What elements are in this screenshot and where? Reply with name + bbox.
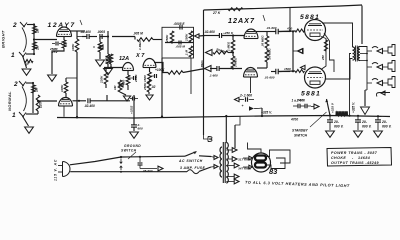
ground volume bright xyxy=(96,60,105,66)
ground mixer bright xyxy=(104,69,113,75)
svg-text:4700: 4700 xyxy=(290,118,298,122)
PI box left edge xyxy=(203,10,205,135)
wire 12AY7A cathode down xyxy=(63,37,65,41)
wire 83 plate loop inner xyxy=(266,158,285,169)
bias tap arrow xyxy=(235,97,245,101)
wire pot to ground xyxy=(99,52,101,59)
PI input arrow lower xyxy=(205,66,212,72)
wire PT HV up A xyxy=(225,115,227,143)
svg-text:GROUND: GROUND xyxy=(124,144,141,148)
wire screen vertical B xyxy=(324,33,334,72)
resistor 68K bright (diagonal) xyxy=(24,60,33,67)
svg-text:1 ±.1-600: 1 ±.1-600 xyxy=(292,99,306,103)
capacitor .02-600 PI in xyxy=(204,30,244,38)
note text line1 xyxy=(331,151,378,155)
wire bias vertical xyxy=(292,30,294,72)
output transformer T1 secondary xyxy=(358,47,360,61)
wire to PI lower arrow xyxy=(183,69,205,73)
resistor mixer 1 bright xyxy=(106,54,112,65)
label +325V node xyxy=(261,111,272,115)
wire signal A xyxy=(77,31,85,37)
label STANDBY SWITCH xyxy=(292,112,327,138)
input jack J3 (normal 2) xyxy=(19,81,26,86)
tone box outline xyxy=(162,27,194,58)
svg-text:100K: 100K xyxy=(60,84,64,92)
wire 5881 upper plate to OT xyxy=(322,23,353,47)
resistor 220K (2nd) xyxy=(100,68,108,89)
resistor PI input upper xyxy=(213,47,228,54)
wire to mixer node xyxy=(107,31,109,54)
svg-text:25MF: 25MF xyxy=(134,74,138,83)
svg-text:1 MEG: 1 MEG xyxy=(138,40,142,50)
PI A plate hatch xyxy=(246,32,256,34)
svg-text:250K: 250K xyxy=(165,34,169,43)
wire bias node xyxy=(258,108,262,116)
svg-text:2: 2 xyxy=(12,22,17,29)
resistor 820 cathode A xyxy=(62,40,67,48)
arrow PI mid xyxy=(298,49,303,54)
resistor 250K PI upper xyxy=(261,35,269,48)
capacitor .005 tone xyxy=(176,41,186,49)
svg-text:250K: 250K xyxy=(143,82,147,91)
svg-text:115 V. AC: 115 V. AC xyxy=(54,159,58,181)
svg-text:.02: .02 xyxy=(151,85,156,89)
resistor grid stopper lower xyxy=(295,70,305,73)
input jack 1 (bright) number xyxy=(11,52,15,59)
wire normal node up xyxy=(106,95,108,101)
channel label BRIGHT xyxy=(1,30,6,48)
wire input bus vertical (normal) xyxy=(32,83,34,113)
wire curve jack2-jack1 xyxy=(22,28,26,53)
input jack J1 (bright 2) xyxy=(20,22,27,27)
tube label 5881 lower xyxy=(301,91,321,98)
svg-text:.05 MEG: .05 MEG xyxy=(268,48,272,60)
svg-text:+250 K: +250 K xyxy=(223,31,234,35)
resistor 250K PI lower xyxy=(265,48,271,62)
wire 12AY7B cathode down xyxy=(63,106,65,117)
wire top to OT secondary xyxy=(361,6,363,45)
svg-text:1500: 1500 xyxy=(143,75,147,82)
arrow bias mid xyxy=(293,49,303,54)
label AC SWITCH xyxy=(178,159,203,163)
wire 12AY7B plate up xyxy=(65,93,67,98)
wire norm chain2 xyxy=(107,100,130,102)
wire PI out lower to 5881 xyxy=(279,67,295,72)
wire signal B xyxy=(73,100,87,102)
ground 12AY7 cathode xyxy=(48,75,57,81)
83 plate lower xyxy=(255,163,266,168)
svg-text:.005 M: .005 M xyxy=(133,32,143,36)
arrow bias out xyxy=(311,104,319,109)
svg-text:SWITCH: SWITCH xyxy=(294,134,308,138)
label voltage vertical xyxy=(130,105,134,114)
label 250K PI grid xyxy=(223,31,234,35)
tube 5881 upper envelope xyxy=(305,20,326,41)
capacitor 2-600 preamp xyxy=(131,118,143,131)
svg-text:5881: 5881 xyxy=(301,91,321,98)
svg-text:+325 V.: +325 V. xyxy=(261,111,272,115)
12AY7B plate hatch xyxy=(61,100,70,102)
ground below normal jack 1 xyxy=(25,127,34,133)
pot normal tone xyxy=(143,80,151,92)
capacitor PI in lower xyxy=(209,66,242,78)
power transformer T2 primary xyxy=(220,147,222,177)
wire tone mid xyxy=(165,41,194,43)
svg-text:+: + xyxy=(242,104,244,108)
wire 12AX7B plate chain xyxy=(154,63,168,73)
svg-text:.05-600: .05-600 xyxy=(142,169,153,173)
tube label 83 xyxy=(269,167,278,176)
speaker jack 3 xyxy=(367,77,395,88)
svg-text:600 V.: 600 V. xyxy=(382,124,392,128)
wire PI divider tail xyxy=(257,48,267,68)
tube 12AX7 triode B envelope xyxy=(143,59,156,68)
wire PI grid upper xyxy=(228,52,233,54)
svg-text:BRIGHT: BRIGHT xyxy=(1,30,6,48)
tube 5881 lower envelope xyxy=(305,67,326,88)
choke L1 xyxy=(336,111,349,116)
svg-text:220K: 220K xyxy=(100,75,104,84)
PI input arrow upper xyxy=(206,50,213,56)
resistor 1MEG PI xyxy=(227,34,235,53)
AC plug P1 xyxy=(58,162,70,177)
wire plate B to rail stub xyxy=(66,78,77,82)
5881 lower plate xyxy=(308,72,322,74)
capacitor .01-600 PI out upper xyxy=(266,26,290,34)
wire tone normal down xyxy=(148,92,150,94)
wire bright chain xyxy=(112,36,135,38)
PI B plate hatch xyxy=(246,70,256,72)
wire PI out upper to 5881 xyxy=(279,27,295,32)
capacitor ground switch xyxy=(138,157,153,173)
wire OT center tap down xyxy=(350,54,352,117)
svg-text:1: 1 xyxy=(11,52,15,59)
wire grid 2nd stage xyxy=(104,67,123,69)
svg-text:+325 V: +325 V xyxy=(331,102,335,113)
capacitor .01-600 PI out lower xyxy=(264,69,290,80)
wire jack1 down xyxy=(23,57,27,68)
svg-text:OUTPUT TRANS -45249: OUTPUT TRANS -45249 xyxy=(331,161,379,165)
output transformer core xyxy=(356,46,358,62)
wire speaker common down xyxy=(365,90,367,106)
input jack J4 (normal 1) xyxy=(19,112,26,117)
wire grid to 12AY7 half B xyxy=(37,100,57,102)
capacitor normal tone xyxy=(130,97,138,101)
channel label NORMAL xyxy=(7,91,12,111)
label standby vertical xyxy=(331,102,335,113)
tube label 12AX7 (PI) xyxy=(228,15,265,25)
svg-text:250K: 250K xyxy=(185,33,189,42)
wire mixer down xyxy=(107,64,109,68)
resistor tone right upper xyxy=(185,31,193,42)
capacitor .02 coupling B xyxy=(84,98,107,108)
svg-text:POWER TRANS - 8087: POWER TRANS - 8087 xyxy=(331,151,378,155)
svg-text:12A: 12A xyxy=(119,56,129,62)
capacitor .0005 bright xyxy=(97,30,108,39)
label 3 AMP FUSE xyxy=(180,166,205,170)
wire feedback drop xyxy=(289,7,291,32)
resistor grid stopper upper xyxy=(295,29,305,32)
capacitor .02 2nd B xyxy=(150,74,157,89)
arrow speaker common ground xyxy=(361,107,370,115)
svg-text:12AX7: 12AX7 xyxy=(228,16,255,25)
label +325V vertical xyxy=(352,102,356,113)
wire fuse to PT xyxy=(199,165,218,172)
junction normal chain xyxy=(78,100,80,102)
resistor 1M normal B xyxy=(36,95,42,111)
svg-text:+325 V.: +325 V. xyxy=(352,102,356,113)
filter cap C2 20-600 xyxy=(354,116,372,137)
wire plate A feed to rail xyxy=(76,52,78,118)
wire 12AY7A plate out xyxy=(70,31,77,39)
wire PI A plate xyxy=(256,32,267,37)
svg-text:1: 1 xyxy=(12,112,16,119)
arrow ground switch xyxy=(152,166,163,171)
svg-text:820: 820 xyxy=(64,42,68,47)
ground normal vol xyxy=(123,96,130,101)
tube 12AX7 triode A envelope xyxy=(123,63,134,71)
resistor 1MEG PI lower xyxy=(231,52,237,70)
wire 12AX7A cathode xyxy=(127,71,129,76)
PT winding labels xyxy=(238,158,252,171)
volume pot normal xyxy=(113,80,123,92)
svg-text:600 V.: 600 V. xyxy=(334,124,344,128)
resistor 1500 (2nd B) xyxy=(143,72,151,83)
capacitor .02-400 coupling A xyxy=(80,30,97,39)
svg-text:.02-400: .02-400 xyxy=(84,104,95,108)
resistor .005M series xyxy=(133,32,153,42)
note box xyxy=(327,148,392,167)
svg-text:1M: 1M xyxy=(36,28,40,33)
wire resistor node normal xyxy=(37,111,39,114)
svg-text:.0005: .0005 xyxy=(97,30,105,34)
svg-text:.02-400: .02-400 xyxy=(80,30,91,34)
svg-text:SWITCH: SWITCH xyxy=(121,149,137,153)
wire 5881 lower plate to OT xyxy=(326,59,353,80)
AC switch blade xyxy=(185,152,197,157)
PI box top line / feedback xyxy=(204,5,363,10)
svg-text:.01-600: .01-600 xyxy=(266,26,277,30)
wire AC switch to PT xyxy=(199,156,218,160)
12AY7 plate hatch xyxy=(59,30,69,32)
wire tone box right tail xyxy=(190,58,192,94)
resistor 100K plate A xyxy=(71,39,79,52)
wire preamp filter drop xyxy=(133,95,135,118)
resistor 100K (2nd) xyxy=(105,54,113,69)
wire cathode 2nd down xyxy=(127,85,129,90)
note text line3 xyxy=(331,161,379,165)
power transformer core xyxy=(223,142,225,183)
resistor 250 screen xyxy=(321,40,328,61)
svg-text:X 7: X 7 xyxy=(135,53,145,59)
wire OT secondary taps xyxy=(360,53,368,62)
input jack J2 (bright 1) xyxy=(19,52,26,57)
resistor 1M bright B xyxy=(33,42,40,50)
resistor 1M bright A xyxy=(33,26,40,34)
83 plate upper xyxy=(255,156,266,161)
wire speaker return hook xyxy=(376,91,390,97)
wire jack to bus (normal) xyxy=(26,82,34,84)
wire PI B cathode tail xyxy=(250,77,252,93)
speaker jack 2 xyxy=(367,61,395,72)
5881 upper grid xyxy=(307,29,323,31)
PT tap arrows xyxy=(226,148,239,168)
arrow tone out xyxy=(195,34,200,38)
ground switch contacts xyxy=(120,156,123,173)
svg-text:470: 470 xyxy=(286,27,292,31)
svg-text:1M: 1M xyxy=(35,87,39,92)
ground below bright jack 1 xyxy=(22,69,31,75)
resistor tone right lower xyxy=(185,46,193,57)
note text line2 xyxy=(331,156,370,160)
volume pot 1M bright xyxy=(93,37,103,53)
junction dots rail xyxy=(76,114,379,118)
tube label 12AX7 (2nd) xyxy=(119,53,145,62)
input jack 2 (normal) number xyxy=(13,81,18,88)
svg-text:AC SWITCH: AC SWITCH xyxy=(178,159,203,163)
svg-text:CHOKE - 14684: CHOKE - 14684 xyxy=(331,156,370,160)
capacitor 25MF 2nd xyxy=(128,74,138,83)
filter cap C1 20-600 xyxy=(326,116,344,137)
capacitor 25MF cathode A xyxy=(49,42,62,55)
83 filament arrows xyxy=(243,156,253,169)
resistor 250K tone left xyxy=(165,31,174,43)
5881 lower grid xyxy=(307,77,323,79)
tube 12AX7 PI triode B xyxy=(244,68,258,78)
capacitor bias 1 xyxy=(239,94,254,102)
svg-text:820: 820 xyxy=(122,80,126,85)
capacitor .0005 tone xyxy=(174,22,186,30)
ground preamp filter xyxy=(130,132,139,138)
svg-text:27 K: 27 K xyxy=(212,11,221,15)
wire input bus vertical xyxy=(33,25,35,54)
tube 12AX7 PI triode A xyxy=(244,29,258,39)
svg-text:600 V.: 600 V. xyxy=(362,124,372,128)
fuse F1 xyxy=(187,170,199,174)
5881 lower cathode xyxy=(310,81,320,84)
rectifier 83 envelope xyxy=(252,153,271,172)
wire 83 plate loop outer xyxy=(266,150,290,163)
svg-text:1 MEG: 1 MEG xyxy=(227,41,231,51)
svg-text:+100K: +100K xyxy=(155,68,165,72)
resistor 100K plate 2nd xyxy=(155,68,183,74)
wire jack1 normal down xyxy=(23,117,29,126)
PT heater taps xyxy=(226,174,239,184)
tube label 5881 upper xyxy=(300,14,320,21)
wire jack1 to bus xyxy=(26,53,35,55)
wire 12AX7B cathode xyxy=(149,68,151,73)
arrow bias lower xyxy=(297,65,305,102)
label 115V AC xyxy=(54,159,58,181)
5881 upper cathode xyxy=(310,33,320,36)
output transformer T1 primary xyxy=(353,47,355,60)
label 4700 xyxy=(290,118,298,122)
filter cap C3 20-600 xyxy=(374,116,392,137)
wire 83 cathode up xyxy=(248,143,262,154)
svg-text:.01-600: .01-600 xyxy=(264,76,275,80)
svg-text:NORMAL: NORMAL xyxy=(7,91,12,111)
input jack 2 (bright) number xyxy=(12,22,17,29)
wire cathode A to ground xyxy=(52,44,64,75)
svg-text:.1-600: .1-600 xyxy=(209,74,218,78)
svg-text:100K: 100K xyxy=(105,55,109,63)
bias diode mark xyxy=(242,104,259,111)
wire curve jack2-jack1 normal xyxy=(22,87,26,112)
wire B+ rail xyxy=(57,116,390,119)
tube label 12AY7 xyxy=(48,20,83,29)
svg-text:1 MEG: 1 MEG xyxy=(234,57,238,67)
heater note text xyxy=(245,181,350,189)
ground normal tone xyxy=(146,95,153,100)
label PI edge vertical xyxy=(200,60,204,70)
speaker jack 1 xyxy=(367,45,395,56)
input jack 1 (normal) number xyxy=(12,112,16,119)
svg-text:.02-600: .02-600 xyxy=(204,30,215,34)
pilot light xyxy=(204,135,213,142)
svg-text:1M: 1M xyxy=(36,45,40,50)
wire jack2 to bus xyxy=(27,23,35,25)
svg-text:+3252: +3252 xyxy=(130,105,134,114)
svg-text:1500: 1500 xyxy=(284,67,291,71)
svg-text:250: 250 xyxy=(321,55,325,61)
5881 upper plate xyxy=(308,24,322,26)
svg-text:.005 M: .005 M xyxy=(176,45,186,49)
capacitor bias pair xyxy=(292,99,312,109)
svg-text:3 AMP. FUSE: 3 AMP. FUSE xyxy=(180,166,205,170)
wire tone box down to rail xyxy=(161,58,163,118)
op12AY7 triode A envelope xyxy=(57,27,72,36)
wire AC hot xyxy=(70,157,121,165)
svg-text:.1 M: .1 M xyxy=(185,50,189,56)
standby switch blade xyxy=(325,99,330,116)
wire screen vertical A xyxy=(321,37,326,70)
wire grid to 12AY7 xyxy=(33,38,57,40)
svg-text:STANDBY: STANDBY xyxy=(292,129,308,133)
wire vol normal down xyxy=(120,92,126,95)
resistor 820 cathode 2nd xyxy=(122,75,130,85)
wire ground switch mid xyxy=(121,156,185,158)
wire jack to bus 2 (normal) xyxy=(26,113,38,115)
svg-text:.05 MEG: .05 MEG xyxy=(261,35,265,47)
wire tone out to PI xyxy=(199,35,205,38)
svg-text:.0005 E: .0005 E xyxy=(174,22,186,26)
svg-text:2: 2 xyxy=(13,81,18,88)
resistor 1M normal A xyxy=(32,85,39,93)
wire OT secondary top xyxy=(360,47,367,91)
wire AC neutral xyxy=(70,171,187,173)
wire PT HV up B xyxy=(235,116,240,148)
label GROUND SWITCH xyxy=(121,144,141,159)
svg-text:2-.1 600: 2-.1 600 xyxy=(239,94,252,98)
resistor 100K plate B xyxy=(60,82,68,93)
resistor 27K feedback xyxy=(212,8,243,15)
svg-text:100K: 100K xyxy=(71,43,75,51)
label 1 MEG xyxy=(138,40,142,50)
power transformer T2 secondary xyxy=(226,143,228,184)
svg-text:1M: 1M xyxy=(113,85,117,90)
tube 12AY7 triode B envelope xyxy=(59,98,73,107)
wire into tone box xyxy=(135,37,162,40)
svg-text:600: 600 xyxy=(138,126,143,130)
